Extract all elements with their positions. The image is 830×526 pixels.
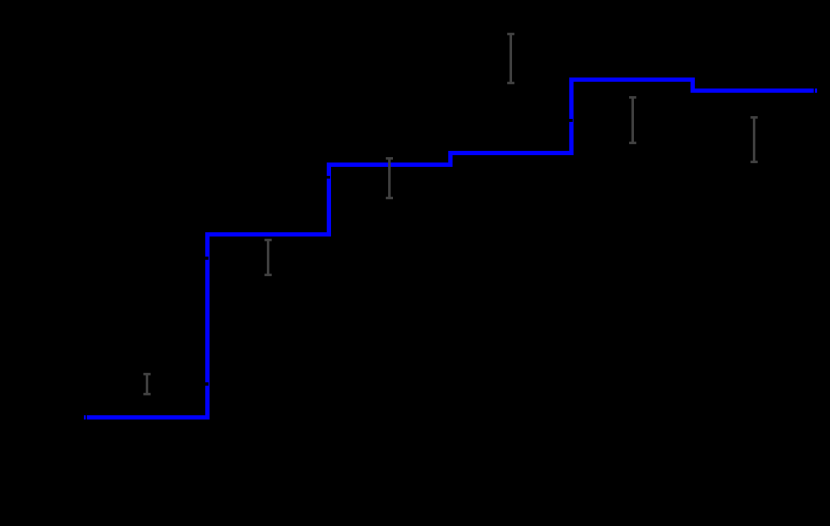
black notch on riser 1 lower [204, 382, 209, 385]
error bar 6 [751, 117, 758, 161]
black notch near line end [814, 88, 815, 93]
error bar 5 [629, 97, 636, 142]
black notch on riser 2 [325, 176, 330, 179]
error bar 1 [143, 374, 150, 394]
black notch on riser 1 upper [204, 257, 209, 260]
blue step line [84, 80, 817, 418]
black notch at line start [86, 415, 87, 421]
black notch on riser 4 [568, 119, 573, 122]
error bar 3 [386, 158, 393, 198]
error bar 2 [265, 240, 272, 275]
error bar 4 [507, 34, 514, 83]
